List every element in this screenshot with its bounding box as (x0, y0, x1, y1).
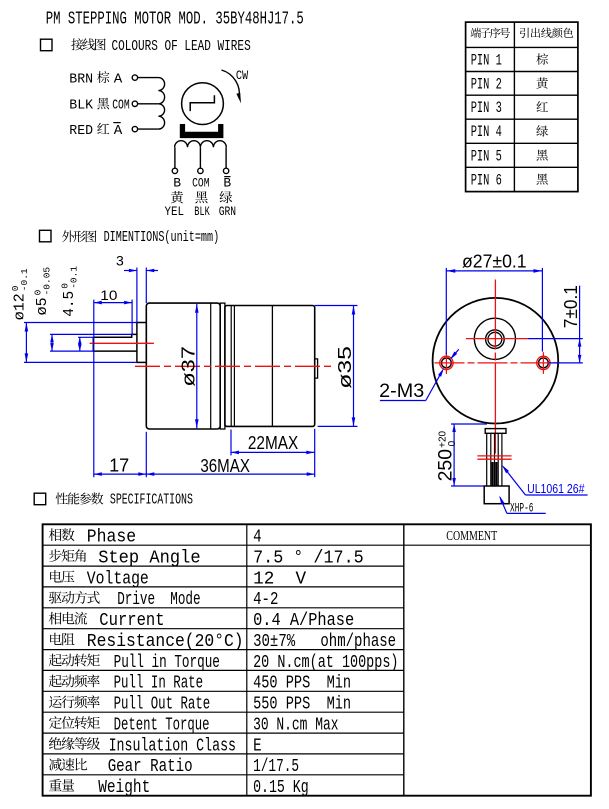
svg-text:COM: COM (192, 176, 209, 191)
svg-text:B: B (223, 176, 231, 191)
svg-text:ø37: ø37 (179, 346, 199, 387)
svg-text:ø27±0.1: ø27±0.1 (462, 252, 527, 272)
svg-text:PIN 4: PIN 4 (471, 123, 502, 141)
svg-text:Voltage: Voltage (87, 568, 149, 589)
svg-text:GRN: GRN (219, 204, 236, 219)
svg-text:0: 0 (447, 440, 458, 446)
svg-text:CW: CW (236, 69, 249, 83)
svg-text:Detent Torque: Detent Torque (114, 714, 210, 735)
svg-text:22MAX: 22MAX (248, 433, 298, 453)
svg-text:BLK: BLK (194, 204, 210, 219)
svg-text:3: 3 (116, 253, 124, 269)
svg-text:36MAX: 36MAX (200, 456, 250, 476)
svg-text:Pull In Rate: Pull In Rate (114, 673, 204, 694)
svg-text:Weight: Weight (98, 777, 150, 798)
svg-text:7.5 ° /17.5: 7.5 ° /17.5 (253, 547, 364, 568)
svg-text:10: 10 (100, 287, 117, 303)
svg-text:B: B (173, 176, 181, 191)
svg-text:Pull Out Rate: Pull Out Rate (114, 694, 211, 715)
svg-text:30 N.cm Max: 30 N.cm Max (253, 714, 338, 735)
svg-text:Gear Ratio: Gear Ratio (108, 756, 193, 777)
svg-text:BRN: BRN (69, 71, 93, 87)
svg-text:-0.1: -0.1 (69, 266, 80, 289)
svg-text:0.15 Kg: 0.15 Kg (253, 777, 309, 798)
svg-text:Step Angle: Step Angle (98, 547, 200, 568)
svg-text:0.4 A/Phase: 0.4 A/Phase (253, 610, 354, 631)
svg-text:ø35: ø35 (335, 346, 355, 389)
svg-text:Insulation Class: Insulation Class (109, 735, 236, 756)
svg-text:1/17.5: 1/17.5 (253, 756, 299, 777)
svg-text:20 N.cm(at 100pps): 20 N.cm(at 100pps) (253, 652, 398, 673)
svg-text:COM: COM (112, 98, 130, 114)
svg-text:12 V: 12 V (253, 568, 306, 589)
svg-text:A: A (114, 123, 123, 139)
svg-text:Current: Current (99, 610, 164, 631)
svg-text:PIN 1: PIN 1 (471, 52, 502, 70)
svg-text:250: 250 (435, 449, 456, 481)
svg-text:COMMENT: COMMENT (446, 528, 497, 543)
svg-text:YEL: YEL (165, 204, 185, 219)
svg-text:4-2: 4-2 (253, 589, 278, 610)
svg-text:550 PPS Min: 550 PPS Min (253, 694, 351, 715)
svg-text:Drive Mode: Drive Mode (117, 589, 200, 610)
svg-text:4: 4 (253, 527, 262, 548)
svg-text:SPECIFICATIONS: SPECIFICATIONS (110, 492, 193, 508)
svg-text:17: 17 (109, 455, 129, 475)
svg-text:PIN 6: PIN 6 (471, 171, 502, 189)
svg-text:ø5: ø5 (35, 297, 51, 315)
svg-text:PIN 2: PIN 2 (471, 75, 502, 93)
svg-text:2-M3: 2-M3 (379, 381, 424, 402)
svg-text:BLK: BLK (69, 98, 93, 114)
svg-text:7±0.1: 7±0.1 (561, 285, 581, 328)
svg-text:4.5: 4.5 (62, 291, 78, 317)
svg-text:PIN 3: PIN 3 (471, 99, 502, 117)
svg-text:COLOURS OF LEAD WIRES: COLOURS OF LEAD WIRES (112, 37, 251, 55)
svg-text:DIMENTIONS(unit=mm): DIMENTIONS(unit=mm) (104, 230, 220, 246)
svg-text:RED: RED (69, 123, 93, 139)
svg-text:Phase: Phase (87, 527, 136, 548)
svg-text:PIN 5: PIN 5 (471, 147, 502, 165)
svg-text:-0.1: -0.1 (19, 268, 30, 291)
svg-text:UL1061 26#: UL1061 26# (527, 481, 585, 496)
svg-text:Resistance(20°C): Resistance(20°C) (87, 631, 244, 652)
svg-text:Pull in Torque: Pull in Torque (114, 652, 220, 673)
svg-text:E: E (253, 735, 262, 756)
svg-text:ø12: ø12 (13, 293, 29, 320)
svg-text:450 PPS Min: 450 PPS Min (253, 673, 351, 694)
svg-text:PM STEPPING MOTOR MOD. 35BY48H: PM STEPPING MOTOR MOD. 35BY48HJ17.5 (46, 10, 304, 30)
svg-text:A: A (114, 71, 123, 87)
svg-text:30±7% ohm/phase: 30±7% ohm/phase (253, 631, 396, 652)
svg-text:-0.05: -0.05 (42, 267, 53, 296)
